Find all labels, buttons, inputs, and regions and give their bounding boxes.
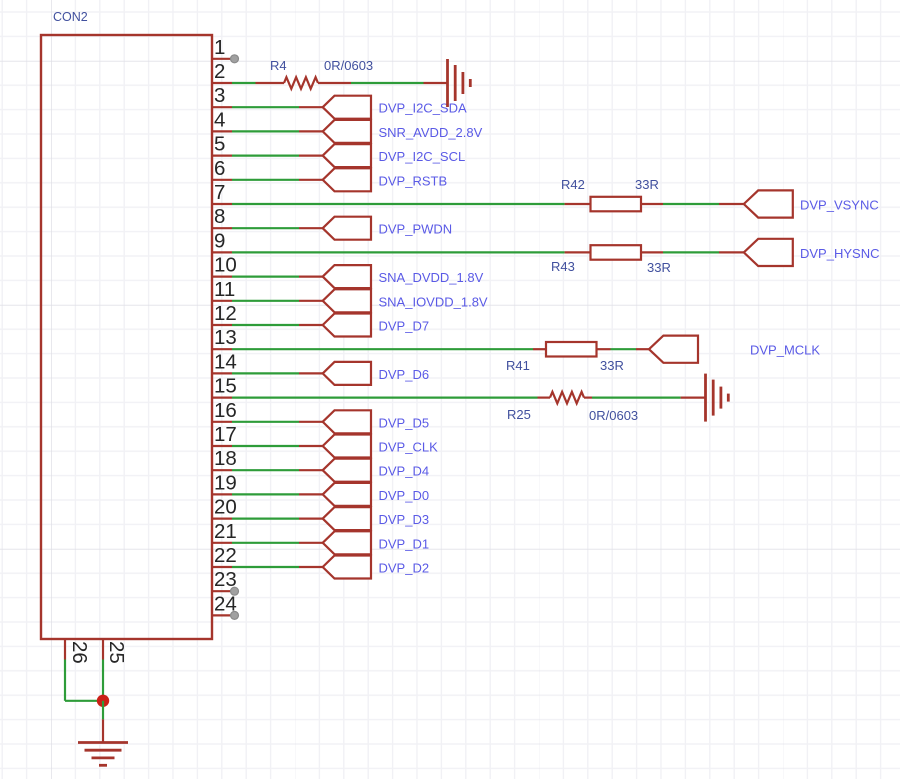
wire pin 15 to R25 [232, 397, 550, 399]
net flag DVP_I2C_SCL [323, 144, 371, 167]
resistor R42 [591, 197, 642, 212]
svg-text:R4: R4 [270, 58, 287, 73]
wire pin 5 [232, 155, 323, 157]
svg-text:12: 12 [214, 302, 237, 325]
ground (rotated) pin 2 net [448, 59, 471, 107]
wire pin 4 [232, 130, 323, 132]
net label DVP_D7 [379, 319, 430, 334]
net port flag DVP_VSYNC [744, 190, 793, 217]
pin 22 [211, 544, 237, 567]
net flag DVP_D6 [323, 362, 371, 385]
svg-text:SNA_IOVDD_1.8V: SNA_IOVDD_1.8V [379, 294, 488, 309]
net flag SNA_IOVDD_1.8V [323, 289, 371, 312]
value 33R [647, 260, 671, 275]
net label DVP_D1 [379, 536, 430, 551]
value 0R/0603 [324, 58, 373, 73]
pin 16 [211, 399, 237, 422]
wire pin 11 [232, 300, 323, 302]
wire R25 to ground [584, 397, 706, 399]
pin 25 [103, 638, 128, 664]
svg-text:3: 3 [214, 84, 225, 107]
svg-text:DVP_D5: DVP_D5 [379, 415, 430, 430]
svg-text:2: 2 [214, 60, 225, 83]
net label DVP_D3 [379, 512, 430, 527]
pin 2 [211, 60, 232, 83]
pin 10 [211, 254, 237, 277]
net label DVP_VSYNC [800, 198, 879, 213]
net label DVP_MCLK [750, 343, 820, 358]
svg-text:SNR_AVDD_2.8V: SNR_AVDD_2.8V [379, 125, 483, 140]
svg-text:16: 16 [214, 399, 237, 422]
wire pin 17 [232, 445, 323, 447]
svg-text:33R: 33R [647, 260, 671, 275]
net label DVP_RSTB [379, 173, 448, 188]
wire pin 18 [232, 469, 323, 471]
svg-text:DVP_I2C_SCL: DVP_I2C_SCL [379, 149, 466, 164]
value 33R [600, 358, 624, 373]
svg-text:17: 17 [214, 423, 237, 446]
pin 12 [211, 302, 237, 325]
net flag DVP_PWDN [323, 217, 371, 240]
svg-text:13: 13 [214, 326, 237, 349]
svg-text:DVP_D2: DVP_D2 [379, 561, 430, 576]
label R43 [551, 259, 575, 274]
wire R4 to ground [318, 82, 448, 84]
pin 18 [211, 447, 237, 470]
net label DVP_I2C_SDA [379, 101, 467, 116]
net flag DVP_CLK [323, 435, 371, 458]
net label DVP_CLK [379, 440, 439, 455]
svg-text:6: 6 [214, 157, 225, 180]
wire pin 9 to R43 [232, 251, 591, 253]
wire pin 12 [232, 324, 323, 326]
pin 3 [211, 84, 232, 107]
pin 15 [211, 375, 237, 398]
svg-text:SNA_DVDD_1.8V: SNA_DVDD_1.8V [379, 270, 484, 285]
label R41 [506, 358, 530, 373]
net label SNR_AVDD_2.8V [379, 125, 483, 140]
pin 24 [211, 592, 239, 619]
net label SNA_DVDD_1.8V [379, 270, 484, 285]
net flag DVP_D1 [323, 531, 371, 554]
net label DVP_D4 [379, 464, 430, 479]
svg-text:DVP_MCLK: DVP_MCLK [750, 343, 820, 358]
net flag DVP_D4 [323, 459, 371, 482]
net label SNA_IOVDD_1.8V [379, 294, 488, 309]
pin 14 [211, 350, 237, 373]
resistor R43 [591, 245, 642, 260]
svg-text:19: 19 [214, 471, 237, 494]
svg-text:15: 15 [214, 375, 237, 398]
ground (rotated) pin 15 net [706, 374, 729, 422]
net label DVP_D2 [379, 561, 430, 576]
wire pin 3 [232, 106, 323, 108]
svg-text:0R/0603: 0R/0603 [589, 408, 638, 423]
net label DVP_PWDN [379, 222, 453, 237]
net flag SNA_DVDD_1.8V [323, 265, 371, 288]
svg-text:DVP_PWDN: DVP_PWDN [379, 222, 453, 237]
pin 26 [65, 638, 91, 664]
net flag SNR_AVDD_2.8V [323, 120, 371, 143]
svg-text:R43: R43 [551, 259, 575, 274]
pin 1 [211, 36, 239, 63]
resistor R25 [550, 392, 584, 404]
wire pin 26 down and right to junction [65, 660, 103, 701]
wire pin 2 to R4 [232, 82, 284, 84]
svg-text:14: 14 [214, 350, 237, 373]
svg-text:DVP_D6: DVP_D6 [379, 367, 430, 382]
net flag DVP_D0 [323, 483, 371, 506]
pin 7 [211, 181, 232, 204]
svg-text:1: 1 [214, 36, 225, 59]
net flag DVP_D2 [323, 556, 371, 579]
svg-text:DVP_CLK: DVP_CLK [379, 440, 439, 455]
net flag DVP_D5 [323, 410, 371, 433]
net label DVP_D6 [379, 367, 430, 382]
wire pin 21 [232, 542, 323, 544]
pin 6 [211, 157, 232, 180]
svg-text:R41: R41 [506, 358, 530, 373]
svg-text:21: 21 [214, 520, 237, 543]
svg-text:R25: R25 [507, 407, 531, 422]
net port flag DVP_HYSNC [744, 239, 793, 266]
pin 20 [211, 496, 237, 519]
pin 4 [211, 108, 232, 131]
svg-text:25: 25 [105, 641, 128, 664]
svg-text:22: 22 [214, 544, 237, 567]
svg-text:33R: 33R [600, 358, 624, 373]
net label DVP_HYSNC [800, 246, 879, 261]
wire R43 to DVP_HYSNC [641, 251, 744, 253]
svg-text:DVP_VSYNC: DVP_VSYNC [800, 198, 879, 213]
wire R42 to DVP_VSYNC [641, 203, 744, 205]
wire pin 13 to R41 [232, 348, 546, 350]
pin 9 [211, 229, 232, 252]
svg-text:10: 10 [214, 254, 237, 277]
svg-text:0R/0603: 0R/0603 [324, 58, 373, 73]
svg-text:R42: R42 [561, 177, 585, 192]
pin 5 [211, 133, 232, 156]
net port flag DVP_MCLK [649, 336, 698, 363]
svg-text:DVP_HYSNC: DVP_HYSNC [800, 246, 879, 261]
label R4 [270, 58, 287, 73]
label R25 [507, 407, 531, 422]
svg-text:8: 8 [214, 205, 225, 228]
svg-text:7: 7 [214, 181, 225, 204]
junction dot [97, 695, 109, 707]
connector CON2 body [41, 35, 212, 639]
pin 21 [211, 520, 237, 543]
net label DVP_I2C_SCL [379, 149, 466, 164]
pin 19 [211, 471, 237, 494]
svg-text:4: 4 [214, 108, 225, 131]
svg-text:DVP_D3: DVP_D3 [379, 512, 430, 527]
svg-text:DVP_D1: DVP_D1 [379, 536, 430, 551]
net flag DVP_I2C_SDA [323, 96, 371, 119]
value 0R/0603 [589, 408, 638, 423]
pin 8 [211, 205, 232, 228]
net flag DVP_D3 [323, 507, 371, 530]
svg-text:11: 11 [214, 278, 235, 301]
value 33R [635, 177, 659, 192]
resistor R41 [546, 342, 597, 357]
svg-text:DVP_D4: DVP_D4 [379, 464, 430, 479]
wire pin 19 [232, 493, 323, 495]
wire pin 20 [232, 517, 323, 519]
net flag DVP_D7 [323, 314, 371, 337]
wire junction to ground [102, 701, 104, 743]
pin 11 [211, 278, 235, 301]
svg-text:26: 26 [68, 641, 91, 664]
net label DVP_D0 [379, 488, 430, 503]
ground GND bottom [78, 743, 128, 766]
wire pin 6 [232, 179, 323, 181]
pin 13 [211, 326, 237, 349]
wire pin 14 [232, 372, 323, 374]
svg-text:9: 9 [214, 229, 225, 252]
wire pin 25 down to junction [102, 660, 104, 701]
wire pin 16 [232, 421, 323, 423]
svg-text:DVP_D7: DVP_D7 [379, 319, 430, 334]
svg-text:18: 18 [214, 447, 237, 470]
svg-text:5: 5 [214, 133, 225, 156]
net label DVP_D5 [379, 415, 430, 430]
wire pin 7 to R42 [232, 203, 591, 205]
wire R41 to DVP_MCLK [597, 348, 650, 350]
svg-text:20: 20 [214, 496, 237, 519]
net flag DVP_RSTB [323, 168, 371, 191]
svg-text:33R: 33R [635, 177, 659, 192]
pin 23 [211, 568, 239, 595]
wire pin 10 [232, 276, 323, 278]
svg-text:CON2: CON2 [53, 10, 88, 24]
svg-text:DVP_D0: DVP_D0 [379, 488, 430, 503]
svg-text:DVP_I2C_SDA: DVP_I2C_SDA [379, 101, 467, 116]
wire pin 8 [232, 227, 323, 229]
pin 17 [211, 423, 237, 446]
label R42 [561, 177, 585, 192]
resistor R4 [284, 77, 318, 89]
wire pin 22 [232, 566, 323, 568]
svg-text:DVP_RSTB: DVP_RSTB [379, 173, 448, 188]
